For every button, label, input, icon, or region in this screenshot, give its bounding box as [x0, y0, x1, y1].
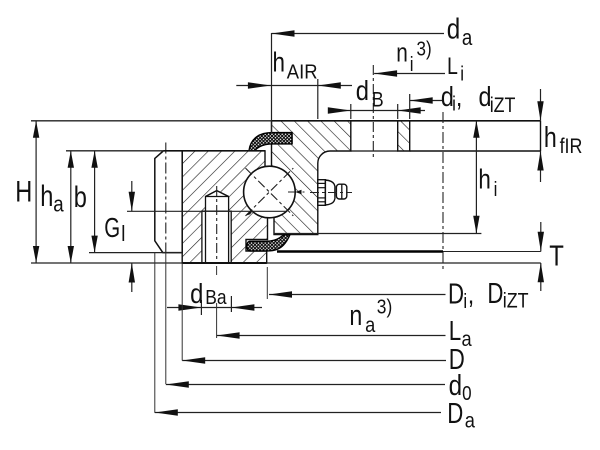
- dimension d_i, d_iZT (leader): [410, 82, 516, 119]
- gear bottom line + extension (b): [89, 252, 182, 254]
- svg-text:iZT: iZT: [503, 289, 529, 313]
- svg-text:h: h: [40, 180, 53, 213]
- svg-text:D: D: [487, 279, 503, 310]
- svg-text:B: B: [372, 88, 384, 112]
- svg-text:i: i: [494, 178, 498, 201]
- dimension T: [538, 222, 564, 291]
- svg-text:AIR: AIR: [287, 60, 318, 83]
- inner ring flange top edge (thick): [272, 120, 541, 122]
- top face line + extension (H, d_a): [31, 120, 541, 122]
- dimension h_i: [473, 121, 497, 234]
- svg-text:d: d: [190, 277, 203, 309]
- gear pitch line (dash-dot): [165, 143, 167, 253]
- svg-text:3): 3): [377, 296, 392, 319]
- upper seal (rubber, cross-hatched): [249, 133, 292, 151]
- thin continuation of seal surface to T: [443, 251, 541, 253]
- svg-text:i: i: [463, 290, 467, 313]
- inner ring (flange + body, sectioned): [272, 121, 351, 235]
- svg-text:0: 0: [462, 382, 471, 405]
- svg-text:,: ,: [456, 82, 462, 112]
- dimension G_l: [104, 181, 135, 292]
- dimension L_i (leader): [374, 52, 464, 85]
- svg-text:l: l: [121, 223, 125, 247]
- dimension d_0 (leader): [166, 369, 472, 404]
- svg-text:D: D: [447, 398, 463, 429]
- svg-text:a: a: [465, 409, 476, 433]
- ball (rolling element): [244, 166, 305, 218]
- svg-text:fIR: fIR: [560, 135, 583, 159]
- svg-text:n: n: [349, 298, 362, 331]
- svg-text:L: L: [449, 316, 461, 347]
- dimension L_a (leader): [217, 316, 473, 352]
- dimension D_i, D_iZT (leader): [269, 279, 529, 313]
- bolt hole d_Ba centerline: [216, 186, 218, 263]
- centerline d_iZT (dash-dot): [442, 112, 444, 270]
- svg-text:d: d: [356, 74, 369, 106]
- svg-text:T: T: [549, 240, 564, 272]
- svg-text:D: D: [448, 279, 464, 310]
- svg-text:Ba: Ba: [205, 287, 227, 310]
- bottom face line + extensions (H, h_a, T): [31, 262, 541, 264]
- svg-text:i: i: [410, 52, 414, 75]
- svg-text:d: d: [449, 369, 462, 401]
- svg-text:L: L: [447, 52, 458, 80]
- outer ring (geared ring, sectioned): [182, 151, 267, 263]
- svg-text:d: d: [447, 13, 460, 45]
- svg-text:,: ,: [468, 280, 474, 310]
- seal running surface thick line: [277, 250, 443, 253]
- extension line D (ring OD): [181, 263, 183, 361]
- extension line D_i (outer ring bore): [266, 267, 268, 299]
- extension line L_a (bolt circle): [216, 266, 218, 275]
- inner ring bottom line + h_i extension: [274, 233, 481, 235]
- bolt hole d_Ba in outer ring (blind threaded hole): [202, 191, 231, 263]
- extension line d_0 (pitch circle): [165, 253, 167, 384]
- dimension h_a: [40, 151, 74, 263]
- svg-text:a: a: [53, 193, 64, 217]
- svg-text:h: h: [544, 120, 557, 153]
- dimension H: [15, 121, 39, 263]
- bolt hole d_B centerline: [372, 65, 374, 158]
- svg-text:iZT: iZT: [490, 94, 516, 118]
- svg-text:H: H: [15, 175, 32, 208]
- dimension D (leader): [182, 344, 465, 375]
- dimension h_AIR: [236, 47, 352, 119]
- svg-text:h: h: [478, 164, 490, 195]
- inner ring flange, unsectioned part with end face: [410, 121, 541, 151]
- dimension d_B: [328, 74, 425, 119]
- svg-text:h: h: [273, 47, 285, 78]
- dimension d_Ba: [167, 277, 262, 315]
- flange bottom edge under bolt hole d_B: [351, 150, 398, 152]
- dimension d_a (leader): [272, 13, 473, 133]
- dimension h_fIR: [537, 89, 582, 182]
- dimension D_a (leader): [155, 398, 476, 432]
- label n_a 3): [349, 296, 392, 337]
- outer ring top line + extension (h_a, b): [66, 150, 265, 152]
- svg-text:a: a: [365, 313, 376, 337]
- outer ring top face edge (thick): [164, 150, 265, 152]
- extension line D_a (gear tip circle): [154, 253, 156, 413]
- inner ring flange strip right of bolt hole (sectioned): [398, 121, 410, 151]
- svg-text:b: b: [74, 180, 87, 213]
- svg-text:G: G: [104, 213, 120, 244]
- gear teeth strip (outer ring gear, side view): [155, 151, 182, 253]
- dimension b: [74, 151, 98, 253]
- svg-text:a: a: [462, 27, 473, 51]
- lower seal (rubber, cross-hatched): [247, 235, 290, 251]
- grease nipple on inner ring: [310, 180, 352, 206]
- G_l reference line (thread depth): [127, 210, 286, 212]
- label n_i 3): [396, 37, 431, 75]
- svg-text:3): 3): [417, 37, 432, 60]
- svg-text:n: n: [396, 38, 408, 67]
